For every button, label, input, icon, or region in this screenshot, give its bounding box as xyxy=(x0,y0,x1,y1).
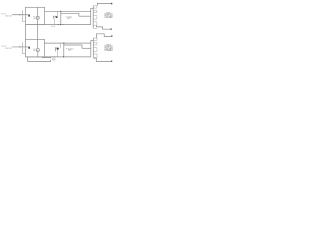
svg-text:+3.3 V: +3.3 V xyxy=(52,56,56,58)
svg-text:Channel 2: Channel 2 xyxy=(1,45,6,47)
svg-text:Channel 1: Channel 1 xyxy=(1,13,6,15)
svg-text:JFET: JFET xyxy=(68,50,72,52)
svg-text:JFET: JFET xyxy=(67,18,71,20)
svg-text:0.1 µF: 0.1 µF xyxy=(51,26,56,28)
svg-text:MCU: MCU xyxy=(52,59,56,61)
